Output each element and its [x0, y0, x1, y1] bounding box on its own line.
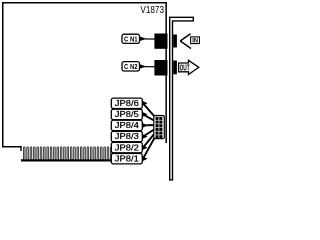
svg-text:JP8/6: JP8/6	[115, 99, 140, 108]
svg-text:OUT: OUT	[180, 62, 190, 72]
label JP8/4	[111, 120, 147, 130]
jumper JP8/3 pointer line	[143, 129, 156, 137]
svg-text:JP8/4: JP8/4	[115, 121, 140, 130]
jumper block JP8	[154, 116, 165, 139]
svg-text:JP8/5: JP8/5	[115, 110, 140, 119]
jumper JP8/4 pointer line	[143, 124, 156, 126]
connector CN2 black body	[154, 60, 167, 76]
mounting bracket	[170, 17, 194, 180]
jumper JP8/5 pointer line	[143, 114, 156, 121]
card outline step to edge connector	[20, 146, 21, 151]
label JP8/6	[111, 98, 147, 108]
svg-text:IN: IN	[192, 39, 198, 45]
OUT arrow	[179, 60, 199, 74]
connector CN1 bracket tab	[173, 35, 177, 48]
edge connector baseline	[21, 159, 112, 161]
svg-text:C N1: C N1	[124, 36, 138, 43]
svg-text:JP8/1: JP8/1	[115, 154, 140, 163]
label JP8/2	[111, 142, 147, 152]
connector CN1 black body	[154, 34, 167, 49]
card outline left edge	[2, 2, 4, 148]
label CN1	[122, 34, 154, 43]
jumper JP8/6 pointer line	[143, 103, 156, 117]
label JP8/3	[111, 131, 147, 141]
jumper JP8/2 pointer line	[143, 132, 156, 147]
edge connector gold fingers	[23, 147, 112, 160]
label JP8/5	[111, 109, 147, 119]
connector CN2 bracket tab	[173, 61, 177, 75]
card outline bottom-left edge	[2, 146, 22, 148]
svg-text:V1873: V1873	[140, 4, 164, 16]
svg-text:C N2: C N2	[124, 64, 138, 71]
svg-text:JP8/3: JP8/3	[115, 132, 140, 141]
card outline right edge	[165, 2, 167, 143]
card outline top edge	[2, 2, 167, 4]
svg-text:JP8/2: JP8/2	[115, 143, 140, 152]
jumper JP8/1 pointer line	[143, 136, 156, 159]
label JP8/1	[111, 154, 147, 164]
IN arrow	[180, 34, 199, 49]
label CN2	[122, 62, 154, 71]
